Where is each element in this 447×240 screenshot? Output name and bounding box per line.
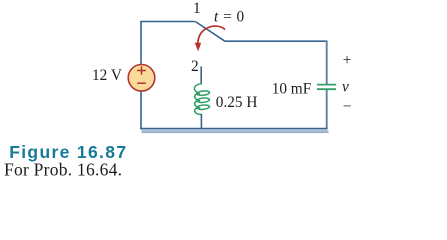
wire stub at contact 2 <box>200 67 202 85</box>
svg-text:−: − <box>343 98 352 115</box>
svg-text:v: v <box>342 79 349 96</box>
wire bottom shadow band <box>142 130 329 133</box>
wire right vertical upper <box>326 40 328 84</box>
svg-text:2: 2 <box>191 58 199 75</box>
wire top-right horizontal (switch pivot to top-right corner) <box>224 40 327 42</box>
label t = 0 <box>214 9 245 26</box>
wire left vertical upper (source top to top-left corner) <box>140 22 142 65</box>
svg-text:t = 0: t = 0 <box>214 9 245 26</box>
svg-text:12 V: 12 V <box>92 67 122 84</box>
switch blade (thrown at t=0) <box>195 22 224 41</box>
svg-text:1: 1 <box>193 0 201 17</box>
svg-text:For Prob. 16.64.: For Prob. 16.64. <box>4 159 122 179</box>
svg-text:0.25 H: 0.25 H <box>216 94 258 111</box>
wire bottom <box>140 128 327 130</box>
label + (capacitor voltage polarity) <box>343 52 352 69</box>
label 10 mF <box>272 80 312 97</box>
caption figure number <box>9 142 127 162</box>
label 0.25 H <box>216 94 258 111</box>
caption description <box>4 159 122 179</box>
label v (capacitor voltage) <box>342 79 349 96</box>
voltage source V1 <box>128 65 155 92</box>
wire top segment (top-left corner to switch contact 1) <box>140 21 195 23</box>
svg-text:+: + <box>343 52 352 69</box>
node 1 label <box>193 0 201 17</box>
capacitor C plates <box>317 85 336 90</box>
inductor L 0.25 H coil <box>194 84 209 115</box>
label 12 V <box>92 67 122 84</box>
switch throw arrow <box>195 26 225 51</box>
label − (capacitor voltage polarity) <box>343 98 352 115</box>
svg-text:10 mF: 10 mF <box>272 80 312 97</box>
wire inductor bottom stub <box>200 114 202 129</box>
node 2 label <box>191 58 199 75</box>
wire left vertical lower (source bottom to bottom-left corner) <box>140 91 142 129</box>
wire right vertical lower <box>326 90 328 130</box>
